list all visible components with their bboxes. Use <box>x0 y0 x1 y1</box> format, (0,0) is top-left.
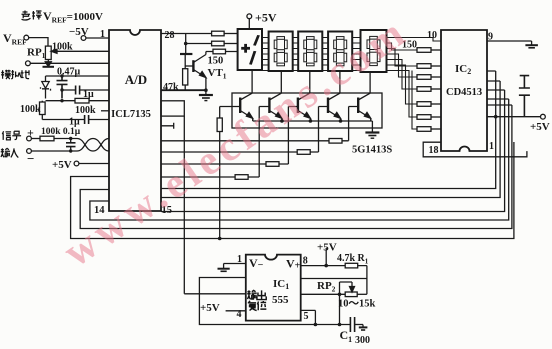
svg-text:555: 555 <box>272 294 289 306</box>
svg-text:+5V: +5V <box>530 121 550 133</box>
chip U1 A/D ICL7135 <box>109 30 161 211</box>
terminal signal minus <box>27 149 32 154</box>
wire analog ground row <box>30 62 109 64</box>
wire to resistor b <box>186 43 212 45</box>
CJK pseudo glyphs <box>1 11 267 311</box>
chip IC2 CD4513 <box>441 30 487 151</box>
segment bus gap3 <box>322 38 328 71</box>
wire digit feed row 4 <box>161 176 235 178</box>
svg-text:9: 9 <box>488 32 493 43</box>
segment bus gap4 <box>352 38 360 71</box>
wire VREF to RP1 <box>29 38 48 47</box>
svg-text:5: 5 <box>304 311 309 322</box>
svg-text:0.47μ: 0.47μ <box>57 67 81 78</box>
pin 2 wire wrap to cap node <box>199 278 350 325</box>
twisted pair wires <box>77 139 109 152</box>
wiper of RP1 to pin <box>51 50 109 52</box>
svg-text:+: + <box>27 126 34 140</box>
RP2 wiper <box>340 282 353 290</box>
segment bus gap2 <box>293 38 299 71</box>
transistor Q3 <box>298 72 311 121</box>
pin 7 wire <box>301 278 367 280</box>
capacitor 1u upper <box>76 86 80 95</box>
wire to pin10 <box>387 38 442 42</box>
fanout wire 2 <box>387 43 418 50</box>
pin 15 bus <box>161 90 505 212</box>
wire 555 output to A/D clock <box>184 116 246 294</box>
chip IC1 555 <box>246 255 301 321</box>
svg-text:100k 0.1μ: 100k 0.1μ <box>41 127 81 137</box>
potentiometer RP1 100k <box>45 46 51 59</box>
svg-text:−: − <box>27 151 34 166</box>
resistor r6 <box>417 115 431 120</box>
label: xin-hao (signal) <box>2 131 21 140</box>
fanout wire 3 <box>387 49 418 67</box>
svg-text:100k: 100k <box>20 104 41 115</box>
fanout wire 4 <box>387 54 418 77</box>
terminal signal plus <box>27 136 32 141</box>
capacitor 0.47u <box>57 76 68 99</box>
svg-text:4: 4 <box>237 309 242 320</box>
resistor 47k <box>184 54 186 69</box>
resistor 100k vertical <box>41 101 43 102</box>
wire loop pins <box>161 101 184 116</box>
display DS4 <box>328 32 352 72</box>
pin 9 wire to ground <box>487 41 532 45</box>
terminal +5V top <box>247 14 252 19</box>
wire wrap L3 pin14 <box>90 99 509 220</box>
svg-text:10～15k: 10～15k <box>338 299 375 310</box>
svg-text:47k: 47k <box>163 82 179 93</box>
resistor base T3 <box>266 162 279 167</box>
wire digit feed row 1 <box>161 140 329 142</box>
svg-text:5G1413S: 5G1413S <box>352 145 392 156</box>
label: xuan-ze (select) <box>22 11 42 20</box>
bus B to CD4513 <box>161 81 500 198</box>
svg-text:ICL7135: ICL7135 <box>111 109 151 120</box>
resistor r3 <box>417 75 431 80</box>
zener diode <box>41 76 51 99</box>
display DS3 <box>298 32 322 72</box>
capacitor right <box>519 76 530 117</box>
terminal analog ground <box>26 61 31 66</box>
display DS2 <box>269 32 293 72</box>
pin row box CD4513 <box>423 142 527 157</box>
transistor Q4 <box>328 72 341 121</box>
stub pin row <box>101 110 109 112</box>
svg-text:1: 1 <box>100 29 105 40</box>
ground array <box>365 131 379 133</box>
resistor 100k horizontal <box>75 98 89 103</box>
svg-text:28: 28 <box>165 30 175 41</box>
fanout wire 5 <box>387 60 418 90</box>
svg-text:A/D: A/D <box>125 72 147 87</box>
display DS5 <box>361 30 387 72</box>
resistor r4 <box>417 87 431 92</box>
emitter rail <box>253 121 373 132</box>
svg-text:300: 300 <box>355 335 370 346</box>
ground VT1 <box>199 94 213 96</box>
stub pin with tick <box>161 123 174 129</box>
svg-text:CD4513: CD4513 <box>446 87 482 98</box>
resistor 150 b <box>212 41 225 46</box>
transistor Q5 <box>358 72 371 121</box>
node branch vertical <box>185 34 187 55</box>
terminal -5V <box>81 36 86 41</box>
svg-text:+5V: +5V <box>317 242 337 254</box>
display DS1 plus-minus-one digit <box>238 29 262 70</box>
resistor base T5 <box>329 139 342 144</box>
svg-text:1μ: 1μ <box>69 117 80 128</box>
+5V right rail <box>487 116 541 118</box>
fanout wire 6 <box>387 65 418 104</box>
capacitor C1 <box>350 317 354 332</box>
resistor r7 <box>417 127 431 132</box>
svg-text:1: 1 <box>489 141 494 152</box>
pin 6 wire with RP2 <box>301 293 346 295</box>
svg-text:8: 8 <box>303 256 308 267</box>
terminal +5V right <box>541 114 546 119</box>
resistor 150 r1 <box>417 48 431 53</box>
segment bus gap1 <box>263 38 269 71</box>
wire emitter ground row <box>161 89 206 91</box>
resistor r2 <box>417 64 431 69</box>
label: shu-chu (output, inside 555) <box>247 290 266 299</box>
svg-text:+5V: +5V <box>255 11 277 25</box>
resistor base T2 <box>235 175 248 180</box>
svg-text:150: 150 <box>208 56 224 67</box>
transistor VT1 <box>192 60 194 72</box>
wire to 100k input resistor <box>31 138 40 140</box>
ground C1 <box>362 325 364 328</box>
wire pin28 row to resistor <box>161 33 212 35</box>
svg-text:−5V: −5V <box>69 26 89 38</box>
potentiometer RP2 <box>345 292 357 297</box>
resistor 100k input <box>40 136 54 141</box>
svg-text:1: 1 <box>237 254 242 265</box>
label: shu-ru (input) <box>1 148 19 157</box>
transistor Q1 <box>240 70 253 121</box>
capacitor 0.1u <box>66 143 76 147</box>
pin 4 +5V wire <box>226 310 246 312</box>
wire wrap L2 <box>80 105 512 229</box>
label: fu-wei (reset, inside 555) <box>248 301 267 311</box>
digit plus-one in DS1 <box>241 35 260 65</box>
terminal +5V left <box>74 161 79 166</box>
junction dot <box>60 74 63 77</box>
pin 5 stub <box>301 310 316 324</box>
pin 8 row with R1 <box>301 265 346 267</box>
transistor Q2 <box>269 72 282 121</box>
wire node row y76 <box>46 75 110 77</box>
svg-text:100k: 100k <box>75 105 96 116</box>
resistor 150 a <box>212 31 225 36</box>
fanout wire 8 <box>412 71 417 130</box>
svg-text:18: 18 <box>429 145 439 156</box>
fanout wire 7 <box>387 71 418 118</box>
+5V drop to pin 8 <box>325 248 327 266</box>
wire digit feed row 2 <box>161 151 297 153</box>
terminal VREF <box>24 35 29 40</box>
resistor R1 4.7k <box>345 263 358 268</box>
transistor array box 5G1413S <box>232 93 382 128</box>
svg-text:10: 10 <box>427 30 437 41</box>
wire wrap L1 <box>71 142 514 239</box>
pin 1 wire with ground <box>224 264 246 269</box>
bus A to CD4513 <box>161 71 496 189</box>
capacitor 1u lower <box>85 115 89 124</box>
svg-text:+5V: +5V <box>200 302 220 314</box>
resistor base T1 vertical <box>217 118 222 132</box>
svg-text:+5V: +5V <box>52 159 72 171</box>
junction dot on L1 <box>218 237 222 241</box>
svg-text:100k: 100k <box>52 42 73 53</box>
RP1 bottom lead <box>47 60 49 64</box>
resistor base T4 <box>297 150 310 155</box>
label: mo-ni-di (analog ground) <box>1 70 29 79</box>
svg-text:4.7k R1: 4.7k R1 <box>337 253 369 266</box>
svg-text:1μ: 1μ <box>83 89 94 100</box>
resistor 150 c <box>213 49 226 54</box>
wire digit feed row 3 <box>161 163 266 165</box>
rail y98.5 <box>46 100 76 102</box>
resistor r5 <box>417 102 431 107</box>
watermark www.elecfans.com <box>56 8 417 276</box>
